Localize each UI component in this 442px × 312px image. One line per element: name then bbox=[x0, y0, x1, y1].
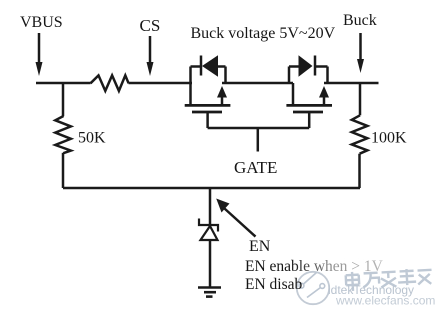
svg-text:VBUS: VBUS bbox=[20, 14, 63, 31]
svg-text:50K: 50K bbox=[78, 130, 106, 147]
svg-text:GATE: GATE bbox=[234, 158, 277, 177]
svg-text:100K: 100K bbox=[371, 130, 407, 147]
svg-text:Buck voltage 5V~20V: Buck voltage 5V~20V bbox=[191, 25, 336, 42]
svg-text:Buck: Buck bbox=[343, 12, 377, 29]
svg-text:CS: CS bbox=[140, 16, 161, 35]
svg-text:EN: EN bbox=[249, 238, 271, 255]
svg-text:EN disab: EN disab bbox=[245, 276, 303, 293]
svg-text:www.elecfans.com: www.elecfans.com bbox=[335, 294, 435, 308]
